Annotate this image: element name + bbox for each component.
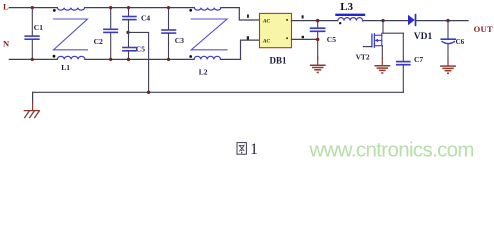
svg-text:L1: L1 (61, 63, 70, 72)
capacitor C3 (162, 8, 184, 60)
node dot C2 bottom (109, 58, 112, 61)
chassis ground symbol (24, 103, 39, 118)
wire down to chassis ground (32, 92, 34, 103)
svg-text:C7: C7 (414, 55, 423, 64)
svg-text:L3: L3 (340, 1, 353, 13)
node dot C1 bottom (31, 58, 34, 61)
node dot ground rail junction (147, 91, 150, 94)
node dot C4 top (127, 6, 130, 9)
ground G3 under C6 (441, 59, 455, 75)
wire L rail (9, 7, 57, 9)
svg-text:AC: AC (262, 19, 270, 25)
ground G1 under C5 bulk (311, 57, 325, 73)
pin 1 label (247, 15, 249, 18)
capacitor C5 (filter) (123, 32, 145, 59)
wire branch to C7 (383, 32, 403, 34)
svg-text:C6: C6 (456, 38, 465, 46)
transistor VT2 (MOSFET) (372, 33, 382, 47)
capacitor C6 (polarized) (441, 21, 464, 59)
node dot C3 bottom (167, 58, 170, 61)
capacitor C1 (25, 8, 43, 60)
diode VD1 (408, 15, 433, 42)
capacitor C5 (bulk) (311, 21, 337, 59)
svg-text:1: 1 (250, 141, 258, 158)
inductor L2 bottom winding (189, 55, 220, 76)
inductor L3 (337, 1, 365, 25)
choke L1 core Z (54, 19, 88, 50)
node dot C5 bulk top (316, 19, 319, 22)
node dot C6 top (446, 19, 449, 22)
inductor L1 top winding (53, 8, 85, 12)
node dot C5 bulk / minus rail (316, 38, 319, 41)
figure caption 图 1 (237, 143, 246, 155)
svg-text:L: L (3, 2, 9, 12)
wire N rail corner up to DB1 input (241, 40, 260, 59)
capacitor C4 (123, 8, 151, 33)
svg-text:C1: C1 (34, 23, 43, 32)
svg-text:C5: C5 (136, 44, 145, 53)
wire VT2 gate stub (364, 46, 372, 48)
node dot C1 top (31, 6, 34, 9)
svg-text:www.cntronics.com: www.cntronics.com (309, 138, 475, 161)
capacitor C2 (94, 8, 118, 60)
pin 4 mark (302, 36, 304, 38)
node dot C5 bottom (127, 58, 130, 61)
pin 3 label (247, 36, 249, 40)
svg-text:L2: L2 (199, 67, 208, 76)
inductor L2 top winding (189, 8, 221, 12)
node dot C2 top (109, 6, 112, 9)
svg-text:VT2: VT2 (356, 53, 370, 62)
wire DB1 minus output (292, 38, 318, 40)
node dot C4/C5 midpoint (126, 31, 129, 34)
choke L2 core Z (191, 19, 227, 50)
svg-text:C5: C5 (327, 35, 336, 44)
wire DC+ rail from DB1 to output (292, 20, 338, 22)
svg-text:C2: C2 (94, 37, 103, 46)
ground G2 under VT2 (375, 58, 389, 74)
wire N rail (9, 58, 57, 60)
svg-text:VD1: VD1 (414, 32, 433, 42)
wire ground return rail (33, 91, 404, 93)
wire drain feed (382, 21, 384, 34)
wire L rail corner down to DB1 input (239, 8, 259, 20)
svg-text:N: N (3, 39, 10, 49)
wire VT2 source down (381, 46, 383, 58)
svg-text:OUT: OUT (474, 24, 493, 34)
pin 2 mark (302, 15, 304, 18)
bridge rectifier DB1 (260, 13, 292, 65)
inductor L1 bottom winding (53, 55, 85, 72)
node dot VT2 drain (381, 19, 384, 22)
wire midpoint tap to ground rail (129, 32, 149, 92)
node dot C3 top (167, 6, 170, 9)
svg-text:AC: AC (262, 38, 270, 44)
capacitor C7 (397, 33, 424, 92)
svg-text:DB1: DB1 (270, 55, 288, 65)
svg-text:C3: C3 (175, 36, 184, 45)
svg-text:C4: C4 (141, 14, 150, 23)
